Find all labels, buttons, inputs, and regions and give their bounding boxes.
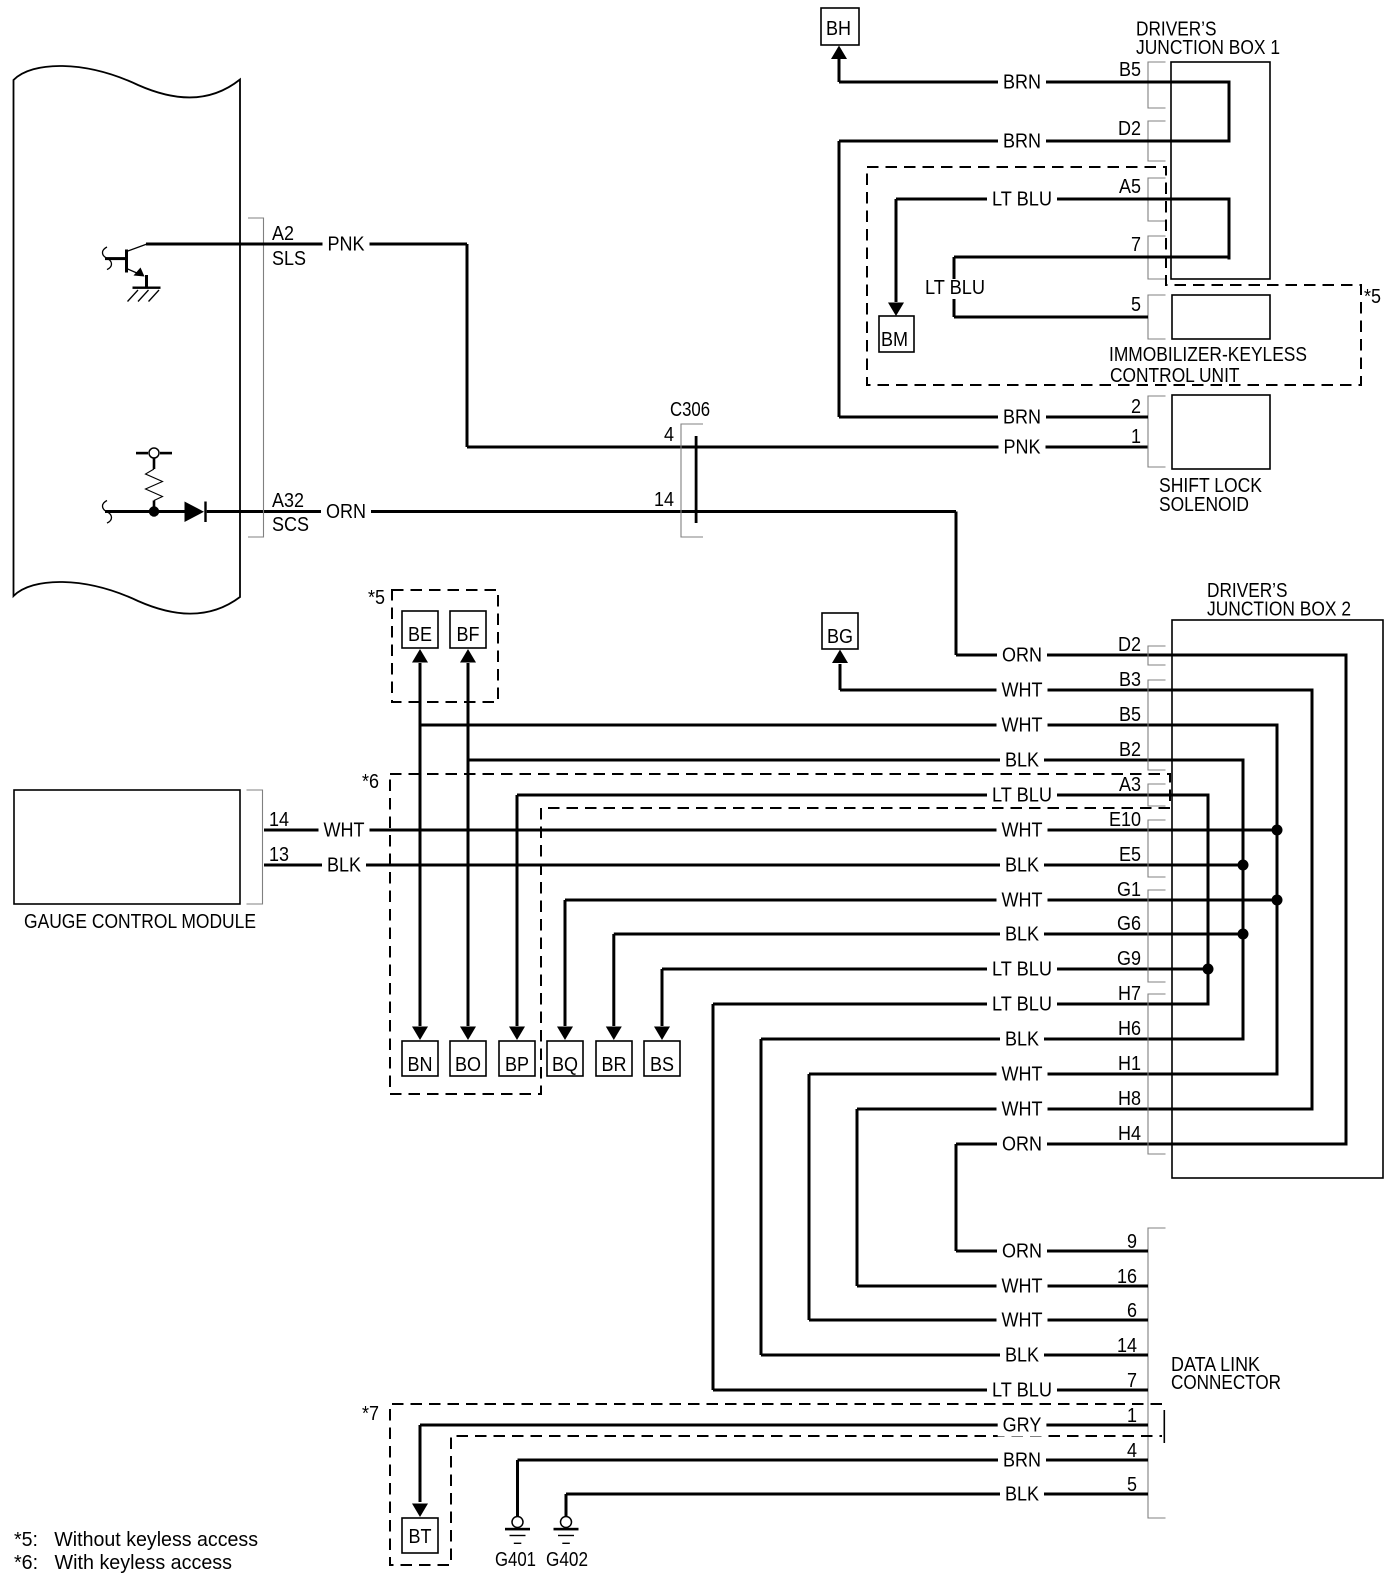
junction G9 on A3-H7 bus: [1203, 964, 1214, 975]
svg-text:G6: G6: [1117, 913, 1141, 935]
svg-text:*7: *7: [362, 1403, 379, 1425]
diode D1: [185, 502, 207, 523]
svg-text:B5: B5: [1119, 59, 1141, 81]
wire label PNK (pin 1): [999, 439, 1046, 459]
wire PNK vertical: [466, 244, 469, 447]
wire label LT BLU (A5): [987, 191, 1057, 211]
wire BLK drop H6 to DLC pin 14: [760, 1039, 763, 1355]
svg-text:CONNECTOR: CONNECTOR: [1171, 1372, 1281, 1394]
wire ORN to DLC pin 9: [956, 1250, 1148, 1253]
resistor R1 (pull-up): [146, 458, 163, 508]
terminal BM: [879, 316, 914, 352]
terminal BF: [450, 611, 486, 648]
svg-text:LT BLU: LT BLU: [992, 959, 1052, 981]
terminal BN: [402, 1041, 438, 1076]
pins 2/1 bracket (shift lock solenoid): [1148, 396, 1166, 467]
svg-text:C306: C306: [670, 399, 710, 421]
terminal BR: [596, 1041, 632, 1076]
ground G401: [505, 1517, 530, 1545]
arrowhead to BG: [832, 650, 848, 664]
wire BLK to JB2 pin G6: [614, 933, 1245, 936]
terminal BT: [402, 1518, 438, 1553]
svg-text:PNK: PNK: [328, 234, 366, 256]
svg-text:BRN: BRN: [1003, 407, 1041, 429]
svg-text:BLK: BLK: [1005, 855, 1040, 877]
wire BRN vertical D2 to solenoid pin 2 wire: [838, 141, 841, 417]
wire ORN to JB2 pin D2: [956, 654, 1348, 657]
bus bar B5-D2 inside JB1: [1228, 81, 1231, 143]
svg-text:14: 14: [654, 489, 674, 511]
pin 7 bracket (JB1): [1148, 236, 1166, 279]
wire ORN vertical to junction box 2: [955, 512, 958, 656]
svg-text:A5: A5: [1119, 176, 1141, 198]
svg-text:BG: BG: [827, 626, 853, 648]
pin A5 bracket (JB1): [1148, 178, 1166, 221]
svg-text:SCS: SCS: [272, 514, 309, 536]
svg-text:16: 16: [1117, 1266, 1137, 1288]
wire WHT from gauge pin 14 to JB2 pin E10: [264, 829, 1279, 832]
svg-text:BLK: BLK: [1005, 750, 1040, 772]
wire label ORN (DLC 9): [997, 1243, 1047, 1263]
wire WHT drop to BQ: [564, 900, 567, 1026]
wire BRN to JB1 pin B5: [839, 81, 1231, 84]
pin 5 bracket (immobilizer unit): [1148, 295, 1166, 339]
wire PNK from A2 to corner: [146, 243, 467, 246]
svg-text:13: 13: [269, 844, 289, 866]
svg-text:*5: Without keyless access: *5: Without keyless access: [14, 1529, 258, 1551]
svg-text:B3: B3: [1119, 669, 1141, 691]
wire BRN to JB1 pin D2: [839, 140, 1231, 143]
svg-text:E10: E10: [1109, 809, 1141, 831]
svg-text:WHT: WHT: [1002, 680, 1043, 702]
svg-text:ORN: ORN: [326, 501, 366, 523]
pins G1/G6/G9 bracket (JB2): [1148, 890, 1166, 982]
svg-text:D2: D2: [1118, 634, 1141, 656]
svg-text:BLK: BLK: [327, 855, 362, 877]
svg-text:SOLENOID: SOLENOID: [1159, 494, 1249, 516]
svg-text:BM: BM: [881, 329, 908, 351]
svg-text:LT BLU: LT BLU: [992, 785, 1052, 807]
pin B5 bracket (JB1): [1148, 62, 1166, 108]
svg-text:1: 1: [1131, 426, 1141, 448]
terminal BG: [822, 613, 858, 649]
svg-text:JUNCTION BOX 2: JUNCTION BOX 2: [1207, 599, 1351, 621]
wire label GRY (DLC 1): [998, 1417, 1047, 1437]
wire label ORN (H4): [997, 1136, 1047, 1156]
svg-text:H1: H1: [1118, 1053, 1141, 1075]
svg-text:1: 1: [1127, 1405, 1137, 1427]
arrowhead to BS: [654, 1027, 670, 1041]
svg-text:*6: *6: [362, 771, 379, 793]
svg-text:WHT: WHT: [1002, 715, 1043, 737]
wire LT BLU drop to BM: [895, 199, 898, 302]
terminal BP: [499, 1041, 535, 1076]
svg-text:H8: H8: [1118, 1088, 1141, 1110]
bus bar B3-H8 inside JB2: [1311, 690, 1314, 1109]
wire label ORN (A32): [321, 503, 371, 523]
bus bar B5-H1 inside JB2: [1276, 725, 1279, 1074]
svg-text:WHT: WHT: [324, 820, 365, 842]
wire label WHT (DLC 6): [997, 1312, 1048, 1332]
wire ORN from A32 through C306: [265, 510, 956, 513]
connector bracket (control module pins A2/A32): [248, 218, 264, 537]
wire label WHT (H1): [997, 1066, 1048, 1086]
wire LT BLU jumper 7 to 5: [953, 257, 956, 317]
svg-text:BE: BE: [408, 624, 432, 646]
svg-text:G9: G9: [1117, 948, 1141, 970]
svg-text:BH: BH: [826, 18, 851, 40]
svg-text:5: 5: [1131, 294, 1141, 316]
connector C306 bar: [695, 436, 698, 523]
junction E5 on B2-H6 bus: [1238, 860, 1249, 871]
svg-text:GAUGE CONTROL MODULE: GAUGE CONTROL MODULE: [24, 911, 256, 933]
svg-text:*5: *5: [1364, 286, 1381, 308]
pin 1 alternate bracket: [1164, 1410, 1166, 1443]
svg-text:JUNCTION BOX 1: JUNCTION BOX 1: [1136, 37, 1280, 59]
wire BRN to DLC pin 4: [518, 1459, 1149, 1462]
bus bar D2-H4 inside JB2: [1345, 655, 1348, 1144]
arrowhead to BO: [460, 1027, 476, 1041]
svg-text:BRN: BRN: [1003, 1450, 1041, 1472]
wire BLK from gauge pin 13 to JB2 pin E5: [264, 864, 1245, 867]
wire label LT BLU (7-5 jumper): [920, 279, 990, 299]
wire label BRN (DLC 4): [998, 1452, 1046, 1472]
wire BRN to shift lock solenoid pin 2: [839, 416, 1148, 419]
wire LT BLU to DLC pin 7: [713, 1389, 1148, 1392]
wire label WHT (G1): [997, 892, 1048, 912]
svg-text:WHT: WHT: [1002, 890, 1043, 912]
wire LT BLU to JB1 pin 7: [954, 256, 1231, 259]
terminal BS: [644, 1041, 680, 1076]
wire label BRN (B5): [998, 74, 1046, 94]
wire BLK to JB2 pin B2: [468, 759, 1245, 762]
junction G1 on B5-H1 bus: [1272, 895, 1283, 906]
automatic transmission control module (partial box): [14, 66, 241, 614]
wire GRY drop to BT: [419, 1425, 422, 1502]
dashed region *5 (immobilizer, without keyless access): [867, 167, 1361, 385]
arrowhead to BT: [412, 1504, 428, 1518]
pin A3 bracket (JB2): [1148, 784, 1166, 806]
svg-text:9: 9: [1127, 1231, 1137, 1253]
wire SCS inside module: [103, 501, 112, 524]
svg-text:LT BLU: LT BLU: [992, 994, 1052, 1016]
wire WHT to JB2 pin H1: [809, 1073, 1279, 1076]
arrowhead to BR: [606, 1027, 622, 1041]
svg-text:BLK: BLK: [1005, 1029, 1040, 1051]
svg-text:BP: BP: [505, 1054, 529, 1076]
terminal BQ: [547, 1041, 583, 1076]
terminal BO: [450, 1041, 486, 1076]
svg-text:*5: *5: [368, 587, 385, 609]
svg-text:CONTROL UNIT: CONTROL UNIT: [1110, 365, 1240, 387]
wire label BLK (DLC 14): [1000, 1347, 1044, 1367]
wire BLK drop to G402: [565, 1494, 568, 1516]
wire WHT to DLC pin 6: [809, 1319, 1148, 1322]
wire LT BLU drop to BP: [516, 795, 519, 1026]
wire label BLK (H6): [1000, 1031, 1044, 1051]
svg-text:BT: BT: [409, 1526, 432, 1548]
wire WHT drop H8 to DLC pin 16: [856, 1109, 859, 1286]
dashed region *6 (with keyless access): [390, 774, 1170, 1094]
svg-text:6: 6: [1127, 1300, 1137, 1322]
svg-text:B5: B5: [1119, 704, 1141, 726]
svg-text:ORN: ORN: [1002, 1241, 1042, 1263]
wire WHT drop H1 to DLC pin 6: [808, 1074, 811, 1320]
wire label LT BLU (H7): [987, 996, 1057, 1016]
pins H7/H6/H1/H8/H4 bracket (JB2): [1148, 994, 1166, 1154]
wire label WHT (B5): [997, 717, 1048, 737]
arrowhead to BE: [412, 649, 428, 663]
ground G402: [554, 1517, 579, 1545]
svg-text:H4: H4: [1118, 1123, 1141, 1145]
svg-text:BLK: BLK: [1005, 1484, 1040, 1506]
dashed region *5 (terminals BE/BF, without keyless access): [392, 590, 498, 702]
arrowhead to BN: [412, 1027, 428, 1041]
svg-text:G402: G402: [546, 1549, 588, 1571]
pins E10/E5 bracket (JB2): [1148, 820, 1166, 877]
wire WHT to JB2 pin H8: [857, 1108, 1314, 1111]
svg-text:IMMOBILIZER-KEYLESS: IMMOBILIZER-KEYLESS: [1109, 344, 1307, 366]
wire label WHT (DLC 16): [997, 1278, 1048, 1298]
wire LT BLU to JB2 pin A3: [517, 794, 1210, 797]
svg-text:BQ: BQ: [552, 1054, 578, 1076]
arrowhead to BQ: [557, 1027, 573, 1041]
svg-text:BRN: BRN: [1003, 72, 1041, 94]
svg-text:ORN: ORN: [1002, 645, 1042, 667]
svg-text:4: 4: [664, 424, 674, 446]
wire PNK to shift lock solenoid pin 1: [467, 446, 1148, 449]
svg-text:*6: With keyless access: *6: With keyless access: [14, 1552, 232, 1574]
arrowhead to BF: [460, 649, 476, 663]
wire label LT BLU (DLC 7): [987, 1382, 1057, 1402]
svg-text:14: 14: [1117, 1335, 1137, 1357]
svg-text:WHT: WHT: [1002, 1064, 1043, 1086]
wire ORN to JB2 pin H4: [956, 1143, 1348, 1146]
connector bracket (gauge control module pins 14/13): [247, 790, 263, 904]
terminal BE: [402, 611, 438, 648]
svg-text:WHT: WHT: [1002, 1099, 1043, 1121]
wire label LT BLU (A3): [987, 787, 1057, 807]
wire WHT riser to BG: [839, 664, 842, 690]
svg-text:H6: H6: [1118, 1018, 1141, 1040]
shift lock solenoid: [1172, 395, 1270, 469]
connector C306 bracket: [681, 424, 703, 537]
wire label LT BLU (G9): [987, 961, 1057, 981]
svg-text:BN: BN: [408, 1054, 433, 1076]
wire label BLK (DLC 5): [1000, 1486, 1044, 1506]
wire BLK drop to BR: [612, 934, 615, 1026]
wire label BLK (gauge 13): [322, 857, 366, 877]
wire BRN drop to G401: [516, 1460, 519, 1516]
bus bar A3-H7 inside JB2: [1207, 795, 1210, 1004]
junction E10 on B5-H1 bus: [1272, 825, 1283, 836]
pull-up supply terminal (circle): [136, 448, 172, 458]
svg-text:WHT: WHT: [1002, 1276, 1043, 1298]
arrowhead to BM: [888, 303, 904, 317]
svg-text:7: 7: [1127, 1370, 1137, 1392]
wire LT BLU to JB1 pin A5: [896, 198, 1231, 201]
svg-text:G401: G401: [495, 1549, 536, 1571]
svg-text:7: 7: [1131, 234, 1141, 256]
wire BRN riser to BH: [838, 59, 841, 82]
driver&#39;s junction box 2: [1172, 620, 1383, 1178]
ground (transistor emitter): [128, 287, 161, 302]
wire label BLK (B2): [1000, 752, 1044, 772]
arrowhead to BP: [509, 1027, 525, 1041]
wire WHT to JB2 pin B3: [840, 689, 1314, 692]
wire label WHT (B3): [997, 682, 1048, 702]
svg-text:14: 14: [269, 809, 289, 831]
svg-text:A32: A32: [272, 490, 304, 512]
svg-text:LT BLU: LT BLU: [925, 277, 985, 299]
svg-text:2: 2: [1131, 396, 1141, 418]
svg-text:BRN: BRN: [1003, 131, 1041, 153]
terminal BH: [821, 8, 859, 45]
wire LT BLU drop H7 to DLC pin 7: [712, 1004, 715, 1390]
wire label BLK (E5): [1000, 857, 1044, 877]
svg-text:B2: B2: [1119, 739, 1141, 761]
wire label ORN (D2): [997, 647, 1047, 667]
svg-text:A2: A2: [272, 223, 294, 245]
wire label WHT (H8): [997, 1101, 1048, 1121]
wire WHT to JB2 pin G1: [565, 899, 1279, 902]
wire BLK to JB2 pin H6: [761, 1038, 1245, 1041]
wire SCS diode to connector: [207, 510, 266, 513]
arrowhead to BH: [831, 46, 847, 60]
svg-text:GRY: GRY: [1003, 1415, 1042, 1437]
wire WHT to DLC pin 16: [857, 1285, 1148, 1288]
wire wire BE/BN column: [419, 663, 422, 1026]
svg-text:LT BLU: LT BLU: [992, 189, 1052, 211]
wire GRY to DLC pin 1: [420, 1424, 1148, 1427]
wire LT BLU drop to BS: [661, 969, 664, 1026]
immobilizer-keyless control unit: [1172, 295, 1270, 339]
svg-text:D2: D2: [1118, 118, 1141, 140]
wire WHT to JB2 pin B5: [420, 724, 1279, 727]
gauge control module: [14, 790, 240, 904]
bus bar A5-7 inside JB1: [1228, 198, 1231, 260]
wire LT BLU to JB2 pin H7: [713, 1003, 1210, 1006]
wire label BLK (G6): [1000, 926, 1044, 946]
wire label BRN (pin 2): [998, 409, 1046, 429]
dashed region *7: [390, 1404, 1162, 1565]
svg-text:BF: BF: [457, 624, 480, 646]
svg-text:BR: BR: [602, 1054, 627, 1076]
svg-text:G1: G1: [1117, 879, 1141, 901]
svg-text:4: 4: [1127, 1440, 1137, 1462]
wire wire BF/BO column: [467, 663, 470, 1026]
bus bar B2-H6 inside JB2: [1242, 760, 1245, 1039]
svg-text:BS: BS: [650, 1054, 674, 1076]
wire label WHT (gauge 14): [319, 822, 370, 842]
svg-text:E5: E5: [1119, 844, 1141, 866]
svg-text:PNK: PNK: [1004, 437, 1042, 459]
svg-text:SLS: SLS: [272, 248, 306, 270]
driver&#39;s junction box 1: [1171, 62, 1270, 279]
wire label PNK (A2): [323, 236, 370, 256]
wire BLK to DLC pin 14: [761, 1354, 1148, 1357]
wire ORN drop H4 to DLC pin 9: [955, 1144, 958, 1251]
junction (resistor to SCS wire): [149, 506, 159, 516]
svg-text:WHT: WHT: [1002, 1310, 1043, 1332]
wire BLK to DLC pin 5: [566, 1493, 1148, 1496]
svg-text:BO: BO: [455, 1054, 481, 1076]
data link connector bracket: [1148, 1228, 1166, 1518]
junction G6 on B2-H6 bus: [1238, 929, 1249, 940]
pin D2 bracket (JB2): [1148, 646, 1166, 665]
svg-text:A3: A3: [1119, 774, 1141, 796]
pins B3/B5/B2 bracket (JB2): [1148, 680, 1166, 770]
svg-text:BLK: BLK: [1005, 924, 1040, 946]
svg-text:WHT: WHT: [1002, 820, 1043, 842]
transistor Q1 (output driver, SLS): [103, 244, 149, 289]
svg-text:LT BLU: LT BLU: [992, 1380, 1052, 1402]
wire label WHT (E10): [997, 822, 1048, 842]
wire label BRN (D2): [998, 133, 1046, 153]
wire LT BLU to immobilizer pin 5: [954, 316, 1148, 319]
pin D2 bracket (JB1): [1148, 121, 1166, 161]
svg-text:5: 5: [1127, 1474, 1137, 1496]
svg-text:ORN: ORN: [1002, 1134, 1042, 1156]
wire LT BLU to JB2 pin G9: [662, 968, 1210, 971]
svg-text:H7: H7: [1118, 983, 1141, 1005]
svg-text:BLK: BLK: [1005, 1345, 1040, 1367]
